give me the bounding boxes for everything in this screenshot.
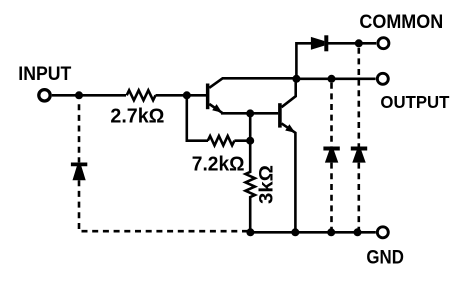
diode D2 cathode bar <box>323 147 339 151</box>
diode D2 triangle <box>325 150 338 162</box>
node gnd R3 junction <box>246 228 254 236</box>
resistor R2 7.2k zigzag <box>208 136 235 145</box>
resistor R1 2.7k zigzag <box>127 90 156 100</box>
wire output node up to common line <box>296 43 311 79</box>
svg-text:2.7kΩ: 2.7kΩ <box>110 106 164 128</box>
diode D1 (to COMMON) triangle <box>311 37 325 50</box>
wire D1 to COMMON terminal <box>328 42 376 45</box>
transistor Q1 base bar <box>206 84 210 110</box>
terminal GND <box>377 227 388 238</box>
wire dashed output to D2 <box>330 83 333 147</box>
wire output line <box>296 78 375 81</box>
transistor Q2 base bar <box>278 103 282 127</box>
svg-text:7.2kΩ: 7.2kΩ <box>192 153 245 175</box>
diode D3 cathode bar <box>351 147 367 151</box>
diode D4 triangle <box>73 166 86 180</box>
transistor Q2 emitter arrow <box>285 124 295 133</box>
resistor R3 3k vertical zigzag <box>246 141 255 232</box>
wire input lead <box>52 94 126 97</box>
diode D3 triangle <box>352 150 365 162</box>
node gnd Q2 emitter junction <box>291 228 299 236</box>
svg-text:3kΩ: 3kΩ <box>256 165 278 204</box>
wire dashed D4 to gnd bus <box>79 180 249 231</box>
transistor Q1 emitter arrow <box>212 104 222 113</box>
svg-text:INPUT: INPUT <box>18 64 71 85</box>
diode D1 cathode bar <box>324 35 328 51</box>
node collector/output junction <box>292 75 300 83</box>
wire R2 to node B <box>234 139 250 142</box>
wire dashed common to D3 <box>357 48 360 147</box>
node A (Q1 base node) <box>183 91 191 99</box>
wire gnd bus <box>250 231 375 234</box>
terminal INPUT <box>39 90 50 101</box>
node input junction <box>75 91 83 99</box>
transistor Q2 collector <box>282 79 296 107</box>
terminal OUTPUT <box>377 73 388 84</box>
node gnd D2 junction <box>327 228 335 236</box>
node output dashed junction <box>328 75 336 83</box>
wire node A down to R2 <box>187 95 208 140</box>
node B (R2/R3 junction) <box>246 137 254 145</box>
node gnd D3 junction <box>354 228 362 236</box>
transistor Q2 emitter <box>282 123 296 232</box>
transistor Q1 collector <box>209 78 296 88</box>
terminal COMMON <box>378 38 389 49</box>
wire R1 to node A <box>156 94 208 97</box>
svg-text:GND: GND <box>366 247 404 268</box>
svg-text:COMMON: COMMON <box>359 12 443 33</box>
wire dashed input to D4 <box>78 104 81 162</box>
svg-text:OUTPUT: OUTPUT <box>380 92 449 112</box>
wire node B to node C <box>249 113 252 140</box>
diode D4 cathode bar <box>71 162 87 166</box>
node common junction <box>355 39 363 47</box>
wire dashed D2 to gnd bus <box>330 163 333 230</box>
wire dashed D3 to gnd bus <box>357 163 360 230</box>
transistor Q1 emitter <box>209 104 278 113</box>
node C (Q1 emitter / Q2 base) <box>246 109 254 117</box>
